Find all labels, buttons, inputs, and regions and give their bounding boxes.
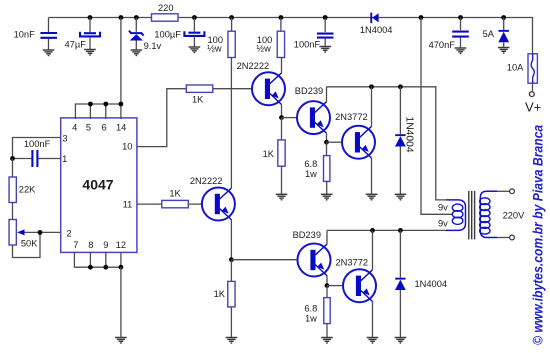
terminal V+ <box>525 92 541 115</box>
wire Q6 emitter riser <box>372 302 374 338</box>
capacitor C1 10nF <box>14 18 57 51</box>
svg-text:220V: 220V <box>503 211 526 221</box>
wire 22K to 50K <box>12 203 14 220</box>
svg-text:9v: 9v <box>438 218 448 228</box>
node junction rail at D5 <box>398 228 403 233</box>
svg-text:5A: 5A <box>483 29 495 39</box>
svg-text:10nF: 10nF <box>14 30 36 40</box>
wire Q4 emitter to Q5 base <box>231 259 297 261</box>
transistor Q1 2N2222 <box>237 61 285 105</box>
node junction top rail at 47uF <box>88 15 93 20</box>
svg-text:3: 3 <box>62 133 67 143</box>
transistor Q6 2N3772 <box>336 258 377 303</box>
ground below R8 <box>321 194 333 200</box>
svg-text:1K: 1K <box>169 189 181 199</box>
ground below 47uF <box>84 50 96 56</box>
wire Q4 emitter riser <box>230 220 232 260</box>
pin label 1 <box>62 154 67 164</box>
resistor R1 220 <box>152 3 179 21</box>
zener diode D1 9.1v <box>129 18 162 51</box>
svg-text:4047: 4047 <box>82 177 113 193</box>
wire junction down to 22K <box>12 159 14 178</box>
ground below R11 <box>321 338 333 344</box>
svg-text:9.1v: 9.1v <box>144 41 162 51</box>
node junction pot wiper <box>38 230 43 235</box>
wire top group collector rail <box>327 87 448 200</box>
svg-text:6.8: 6.8 <box>304 159 317 169</box>
node junctions on top pin bus <box>88 102 123 107</box>
wire bottom group collector rail <box>327 229 447 231</box>
copyright watermark <box>529 125 545 345</box>
resistor R10 1K <box>214 260 235 338</box>
wire Q1 emitter to Q2 base <box>282 117 298 119</box>
svg-text:470nF: 470nF <box>429 40 456 50</box>
svg-text:BD239: BD239 <box>293 230 321 240</box>
ground below Q3 emitter <box>366 194 378 200</box>
terminal secondary top <box>510 189 515 194</box>
capacitor C2 47uF electrolytic <box>65 18 101 50</box>
pin label 2 <box>66 228 71 238</box>
wire fuse to V+ terminal <box>532 83 534 91</box>
resistor R2 100 1/2w <box>207 18 235 58</box>
node junctions on bottom pin bus <box>88 265 123 270</box>
resistor R11 6.8 1w <box>304 286 330 338</box>
wire Q5 collector riser <box>326 230 328 244</box>
svg-text:100nF: 100nF <box>24 139 51 149</box>
svg-text:12: 12 <box>116 240 126 250</box>
capacitor C6 100nF timing <box>13 139 62 167</box>
wire Q1 emitter riser <box>281 105 283 118</box>
transformer T1 core <box>469 191 475 240</box>
pin labels 4 5 6 14 <box>72 122 126 132</box>
svg-text:10: 10 <box>122 141 132 151</box>
svg-text:1w: 1w <box>305 169 317 179</box>
node junction top rail at C5 <box>458 15 463 20</box>
op-amp U1 4047 IC body <box>61 118 137 253</box>
wire 4047 top pin bus <box>75 104 121 119</box>
svg-text:4: 4 <box>72 122 77 132</box>
wire secondary bottom lead <box>497 237 510 239</box>
wire long riser R2 to Q4 collector <box>230 58 232 189</box>
node junction top rail at R3 <box>279 15 284 20</box>
wire riser R3 to Q1 collector <box>281 58 283 73</box>
ground below zener <box>131 50 143 56</box>
svg-text:10A: 10A <box>507 63 524 73</box>
pin label 3 <box>62 133 67 143</box>
svg-text:1N4004: 1N4004 <box>415 279 448 289</box>
diode D2 1N4004 on top rail <box>360 13 393 35</box>
ground below R10 <box>226 338 238 344</box>
svg-text:1: 1 <box>62 154 67 164</box>
wire bottom bus to ground <box>120 267 122 337</box>
ground below Q6 emitter <box>367 338 379 344</box>
fuse F1 10A <box>507 54 538 83</box>
diode D4 1N4004 flyback <box>395 87 415 195</box>
wire center tap feed <box>421 18 453 215</box>
node junction top rail at R2 <box>229 15 234 20</box>
svg-text:5: 5 <box>86 122 91 132</box>
svg-text:© www.ibytes.com.br by Piava B: © www.ibytes.com.br by Piava Branca <box>529 125 545 345</box>
svg-text:47µF: 47µF <box>65 39 87 49</box>
svg-text:9v: 9v <box>438 203 448 213</box>
ground below C4 <box>319 47 331 53</box>
wire Q3 emitter riser <box>371 158 373 194</box>
svg-text:½w: ½w <box>256 43 271 53</box>
wire riser from rail down to 4047 pins 4-5-6-14 <box>120 18 122 105</box>
potentiometer R5 50K <box>9 220 61 249</box>
ground below D3 <box>498 48 510 54</box>
wire Q3 collector riser <box>371 87 373 127</box>
resistor R7 1K <box>263 118 286 195</box>
transistor Q3 2N3772 <box>335 112 375 159</box>
wire Q2 emitter to Q3 base <box>327 141 343 143</box>
resistor R4 22K <box>9 177 36 203</box>
transistor Q2 BD239 <box>295 86 330 134</box>
svg-text:14: 14 <box>116 122 126 132</box>
node junction top rail at C4 <box>323 15 328 20</box>
wire pot bottom loop <box>13 232 41 257</box>
node junction pin3/pin1/22K <box>10 156 15 161</box>
pin label 10 <box>122 141 132 151</box>
wire Q2 collector riser <box>326 87 328 102</box>
svg-text:1K: 1K <box>214 289 226 299</box>
ground below D4 <box>395 194 407 200</box>
svg-text:2N2222: 2N2222 <box>237 61 270 71</box>
transistor Q5 BD239 <box>293 230 331 276</box>
wire R9 to Q4 base <box>188 203 202 205</box>
transistor Q4 2N2222 <box>190 176 235 220</box>
node junction top rail at 100uF <box>192 15 197 20</box>
svg-text:50K: 50K <box>21 239 38 249</box>
node junction Q2 emitter <box>324 140 329 145</box>
svg-text:2N3772: 2N3772 <box>336 258 369 268</box>
wire Q5 emitter to Q6 base <box>327 285 343 287</box>
svg-text:½w: ½w <box>207 43 222 53</box>
svg-text:8: 8 <box>88 240 93 250</box>
node junction top rail to transformer center tap <box>419 15 424 20</box>
svg-text:1N4004: 1N4004 <box>404 117 415 153</box>
wire Q5 emitter riser <box>326 276 328 286</box>
wire Q6 collector riser <box>372 230 374 270</box>
svg-text:7: 7 <box>73 240 78 250</box>
capacitor C5 470nF <box>429 18 469 51</box>
wire pin 10 to base resistor <box>137 89 187 147</box>
node junction rail at Q3 collector <box>369 84 374 89</box>
wire pin 3 loop <box>13 138 62 159</box>
wire R6 to Q1 base <box>213 88 252 90</box>
node junction top rail to IC pins <box>119 15 124 20</box>
resistor R3 100 1/2w <box>256 18 284 58</box>
svg-text:1K: 1K <box>192 95 204 105</box>
svg-text:6.8: 6.8 <box>304 304 317 314</box>
transformer T1 secondary winding <box>480 191 526 237</box>
ground below R7 <box>276 194 288 200</box>
node junction top rail at D3 <box>501 15 506 20</box>
svg-text:100nF: 100nF <box>294 40 321 50</box>
svg-text:2N3772: 2N3772 <box>335 112 368 122</box>
svg-text:1K: 1K <box>263 149 275 159</box>
node junction Q5 emitter <box>325 283 330 288</box>
terminal secondary bottom <box>510 235 515 240</box>
transformer T1 primary winding <box>438 200 466 231</box>
wire secondary top lead <box>497 190 510 192</box>
capacitor C4 100nF <box>294 18 334 50</box>
svg-text:V+: V+ <box>525 100 541 115</box>
svg-text:6: 6 <box>102 122 107 132</box>
svg-text:22K: 22K <box>19 185 36 195</box>
diode D5 1N4004 flyback <box>395 230 447 337</box>
ground for 4047 pins <box>115 338 127 344</box>
svg-text:11: 11 <box>123 200 133 210</box>
wire Q2 emitter riser <box>326 133 328 142</box>
svg-text:BD239: BD239 <box>295 86 323 96</box>
node junction Q1 emitter <box>279 115 284 120</box>
svg-text:220: 220 <box>158 3 174 13</box>
svg-text:1N4004: 1N4004 <box>360 25 393 35</box>
pin labels 7 8 9 12 <box>73 240 126 250</box>
node junction rail at D4 <box>398 84 403 89</box>
svg-text:100µF: 100µF <box>154 30 181 40</box>
ground below 10nF <box>43 50 55 56</box>
svg-text:2: 2 <box>66 228 71 238</box>
node junction top rail at zener <box>134 15 139 20</box>
svg-text:2N2222: 2N2222 <box>190 176 223 186</box>
wire top +12V rail from 10nF to fuse corner <box>49 18 533 54</box>
wire pin 11 to base resistor <box>137 203 163 205</box>
capacitor C3 100uF electrolytic <box>154 18 204 48</box>
pin label 11 <box>123 200 133 210</box>
svg-text:1w: 1w <box>305 313 317 323</box>
resistor R6 1K <box>186 85 213 105</box>
wire 4047 bottom pin bus <box>74 252 121 267</box>
ground below D5 <box>395 338 407 344</box>
resistor R8 6.8 1w <box>304 142 330 194</box>
diode D3 5A <box>483 18 510 48</box>
node junction rail at Q6 collector <box>370 228 375 233</box>
svg-text:9: 9 <box>103 240 108 250</box>
node junction Q4 emitter <box>229 257 234 262</box>
resistor R9 1K <box>162 189 189 208</box>
ground below C5 <box>455 48 467 54</box>
ground below 100uF <box>189 47 201 53</box>
